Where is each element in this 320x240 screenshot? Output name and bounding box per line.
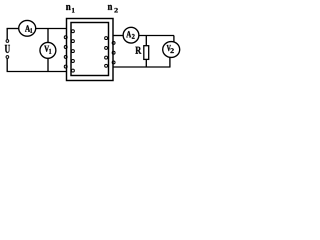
wire V2 bottom lead — [169, 58, 171, 67]
ammeter A2 circle — [123, 27, 139, 43]
wire V1 branch upper — [47, 29, 49, 43]
label n1 subscript 1 — [72, 8, 75, 13]
wire R branch lower — [145, 59, 147, 67]
secondary coil bump E3 — [112, 61, 115, 64]
resistor R box — [144, 46, 149, 60]
primary coil bump E2 — [71, 40, 74, 43]
voltmeter V2 circle — [163, 42, 180, 58]
label R — [135, 47, 141, 54]
label V1 subscript 1 — [49, 49, 51, 54]
wire secondary bottom — [113, 66, 171, 68]
label V2 V — [167, 45, 171, 51]
primary coil bump E5 — [71, 69, 74, 72]
secondary coil bump W4 — [105, 64, 108, 67]
primary coil bump W4 — [64, 65, 67, 68]
primary coil bump W2 — [64, 46, 67, 49]
voltmeter V1 circle — [40, 42, 56, 58]
label U — [5, 45, 10, 53]
terminal lower (source) — [6, 56, 9, 59]
wire R branch upper — [145, 36, 147, 46]
wire right corner down to V2 — [173, 36, 175, 43]
wire left vertical lower — [6, 59, 8, 72]
ammeter A1 circle — [19, 20, 36, 36]
primary coil bump E1 — [71, 30, 74, 33]
label n2 n — [108, 5, 112, 10]
wire A2 to right corner — [139, 35, 174, 37]
secondary coil bump W2 — [105, 46, 108, 49]
wire secondary top to A2 — [113, 35, 123, 37]
secondary coil bump E1 — [112, 41, 115, 44]
primary coil bump W1 — [64, 36, 67, 39]
wire V1 branch lower — [47, 58, 49, 71]
primary coil bump E4 — [71, 60, 74, 63]
secondary coil bump W1 — [105, 37, 108, 40]
secondary coil bump E2 — [112, 51, 115, 54]
primary coil bump W3 — [64, 55, 67, 58]
transformer core inner rectangle — [71, 23, 109, 76]
wire bottom-left horizontal — [7, 71, 67, 73]
label V1 V — [44, 46, 49, 52]
label V2 subscript 2 — [170, 48, 173, 53]
label A1 subscript 1 — [30, 28, 32, 33]
label A1 A — [25, 25, 30, 31]
secondary coil bump W3 — [105, 56, 108, 59]
wire left vertical upper (source lead) — [6, 28, 8, 39]
label n2 subscript 2 — [114, 8, 117, 12]
wire top-left horizontal from source corner to ammeter A1 — [7, 28, 19, 30]
label A2 subscript 2 — [132, 34, 135, 39]
label n1 n — [66, 5, 71, 10]
label A2 A — [126, 31, 131, 37]
primary coil bump E3 — [71, 50, 74, 53]
terminal upper (source) — [6, 40, 9, 43]
wire from A1 to transformer primary — [36, 28, 67, 30]
transformer core outer rectangle — [67, 19, 114, 81]
